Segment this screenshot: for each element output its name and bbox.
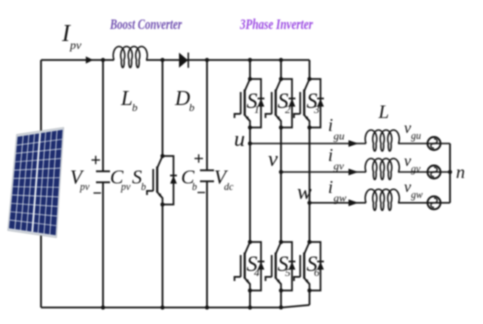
svg-text:b: b (132, 102, 138, 114)
svg-text:b: b (189, 102, 195, 114)
svg-text:gw: gw (334, 193, 348, 205)
svg-text:v: v (268, 146, 278, 171)
svg-text:w: w (297, 179, 312, 204)
svg-text:b: b (192, 182, 197, 193)
svg-text:n: n (456, 162, 465, 182)
svg-text:pv: pv (120, 182, 131, 193)
svg-text:pv: pv (79, 182, 90, 193)
svg-text:6: 6 (314, 267, 320, 279)
svg-text:gu: gu (334, 131, 346, 143)
svg-text:i: i (328, 115, 333, 135)
svg-text:b: b (141, 182, 146, 193)
svg-text:5: 5 (285, 267, 291, 279)
svg-text:i: i (328, 177, 333, 197)
svg-text:3Phase Inverter: 3Phase Inverter (239, 17, 313, 33)
svg-text:1: 1 (254, 104, 260, 116)
svg-text:gu: gu (411, 131, 421, 142)
svg-text:gv: gv (411, 164, 421, 175)
svg-text:3: 3 (313, 104, 320, 116)
svg-text:i: i (328, 145, 333, 165)
svg-text:D: D (174, 86, 190, 110)
svg-text:L: L (120, 86, 133, 110)
svg-text:dc: dc (224, 182, 234, 193)
svg-text:L: L (378, 102, 390, 123)
svg-text:gw: gw (411, 190, 423, 201)
svg-text:u: u (234, 126, 245, 151)
svg-text:Boost Converter: Boost Converter (109, 17, 182, 33)
svg-text:4: 4 (254, 267, 260, 279)
svg-text:2: 2 (285, 104, 291, 116)
svg-text:gv: gv (334, 161, 345, 173)
svg-text:pv: pv (69, 38, 82, 52)
